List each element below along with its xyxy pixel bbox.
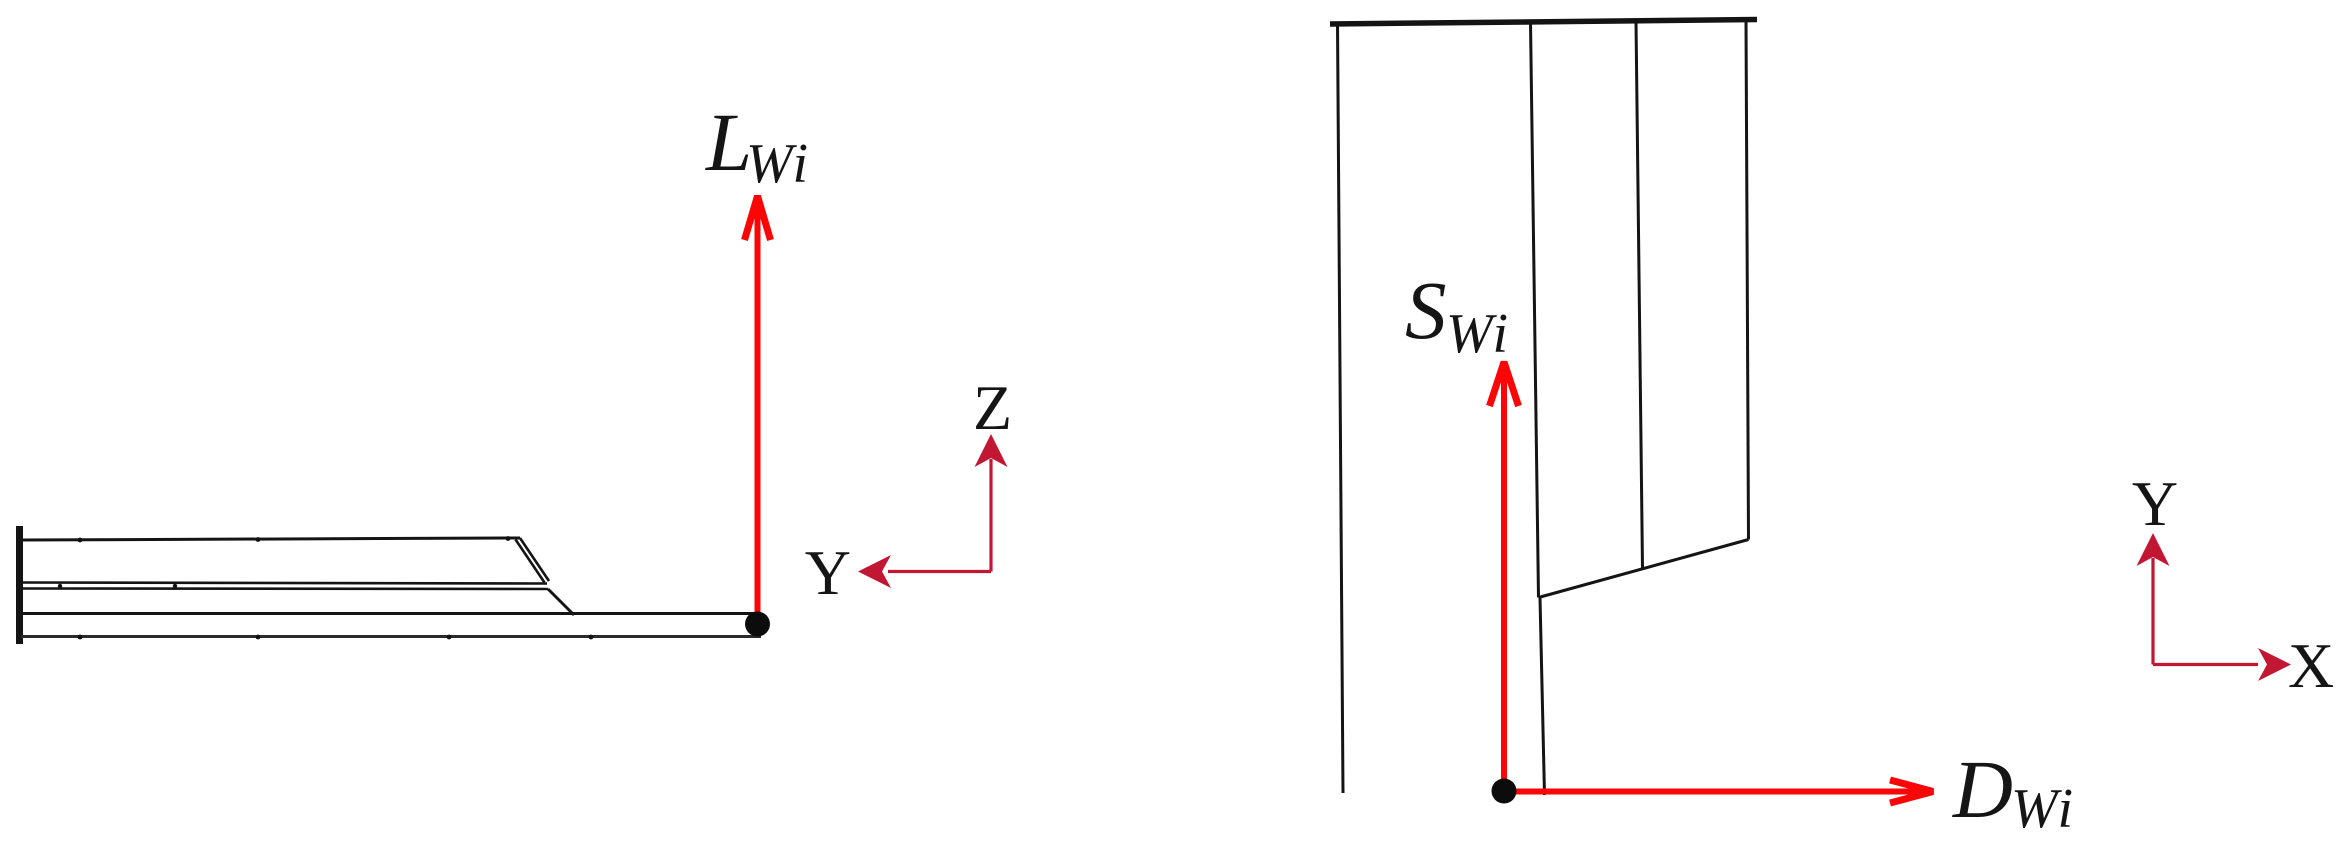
wing front view: slanted bottom edge: [1539, 540, 1749, 598]
svg-text:Y: Y: [2132, 468, 2178, 539]
wing front view: third vertical: [1636, 21, 1643, 569]
wing front view: trailing lower edge: [1540, 598, 1545, 795]
axes X-Y: X arrowhead: [2258, 648, 2291, 681]
force arrow D_Wi shaft: [1506, 789, 1930, 795]
force arrow S_Wi head barbs: [1490, 362, 1519, 406]
wing front view: leading edge (left vertical): [1338, 23, 1344, 793]
wing side view: mid chord line lower: [21, 587, 548, 590]
wing side view: mid chord line upper: [21, 583, 547, 584]
wing front view: right vertical: [1746, 20, 1749, 540]
axes X-Y: Y arrowhead: [2137, 533, 2170, 566]
node: wing reference point (front view): [1492, 779, 1517, 804]
force arrow S_Wi shaft: [1501, 364, 1507, 789]
axes Y-Z: Y arrowhead: [858, 555, 891, 588]
wing side view: tip diagonal lower: [548, 589, 574, 615]
wing side view: root bar: [16, 526, 23, 644]
wing side view: lower band bottom edge: [21, 635, 761, 638]
wing side view: hidden-line tick marks: [58, 536, 594, 639]
svg-text:Wi: Wi: [1446, 303, 1511, 365]
axes Y-Z: Z arrowhead: [975, 434, 1008, 467]
svg-text:D: D: [1952, 743, 2013, 835]
force arrow D_Wi head barbs: [1890, 780, 1933, 803]
svg-text:Y: Y: [805, 537, 851, 608]
svg-text:X: X: [2288, 630, 2334, 701]
wing side view: tip diagonal upper: [520, 538, 549, 581]
wing front view: second vertical: [1531, 22, 1539, 598]
wing side view: upper surface edge: [21, 538, 520, 540]
force arrow L_Wi head barbs: [745, 196, 771, 240]
svg-text:Wi: Wi: [746, 133, 811, 195]
axes X-Y: Y shaft: [2151, 558, 2154, 665]
force arrow L_Wi shaft: [755, 198, 761, 622]
svg-text:Z: Z: [973, 372, 1012, 443]
axes Y-Z: Y shaft: [888, 570, 991, 573]
svg-text:Wi: Wi: [2011, 778, 2076, 840]
wing front view: top bar: [1330, 20, 1757, 25]
wing side view: lower band top edge: [21, 612, 760, 615]
axes Y-Z: Z shaft: [989, 459, 992, 572]
svg-text:S: S: [1405, 264, 1447, 356]
node: wing reference point (left view): [745, 612, 770, 637]
axes X-Y: X shaft: [2153, 663, 2258, 666]
